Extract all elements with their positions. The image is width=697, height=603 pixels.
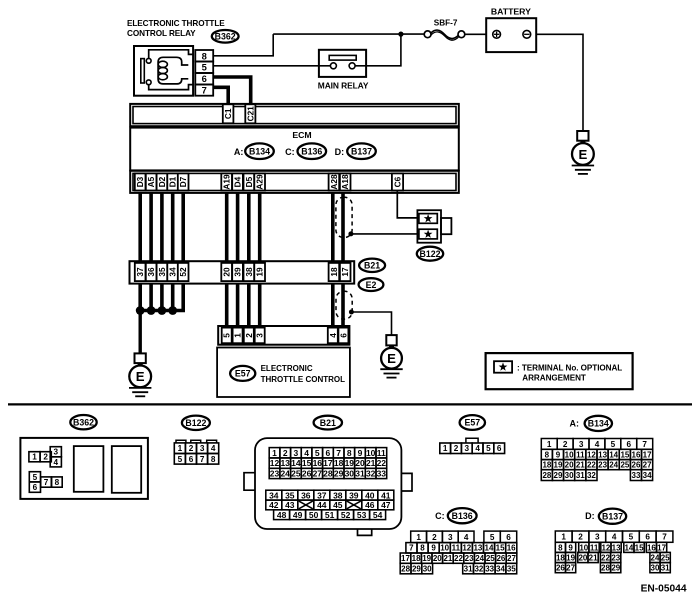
svg-text:THROTTLE CONTROL: THROTTLE CONTROL	[261, 375, 346, 384]
svg-text:E: E	[387, 351, 396, 366]
svg-text:29: 29	[334, 469, 344, 479]
E57 terminal 3	[255, 328, 265, 344]
svg-text:12: 12	[601, 543, 610, 552]
svg-text:4: 4	[211, 444, 216, 453]
svg-text:4: 4	[304, 448, 309, 458]
svg-text:31: 31	[464, 565, 473, 574]
svg-text:28: 28	[601, 564, 610, 573]
svg-text:15: 15	[302, 458, 312, 468]
svg-text:6: 6	[627, 440, 632, 449]
svg-text:2: 2	[454, 444, 459, 453]
connector B136 pinout	[400, 531, 517, 574]
svg-text:ELECTRONIC: ELECTRONIC	[261, 364, 313, 373]
wire strip col 2 to bus	[149, 284, 153, 311]
strip terminal 35	[157, 263, 168, 281]
svg-text:33: 33	[377, 469, 387, 479]
wire strip col 3 to bus	[160, 284, 164, 311]
svg-text:17: 17	[323, 458, 333, 468]
connector E57 pinout	[440, 438, 505, 453]
wire to E57 pin 6	[341, 284, 345, 328]
svg-text:7: 7	[662, 533, 667, 542]
svg-text:B362: B362	[215, 32, 236, 42]
svg-text:28: 28	[401, 565, 410, 574]
svg-text:C1: C1	[223, 108, 233, 119]
svg-text:7: 7	[44, 478, 49, 487]
svg-text:E57: E57	[235, 369, 251, 379]
svg-text:20: 20	[222, 267, 232, 277]
svg-text:16: 16	[507, 544, 516, 553]
ECM terminal A5	[146, 173, 157, 190]
svg-text:C:: C:	[435, 511, 445, 521]
wire to E57 pin 3	[258, 284, 262, 328]
strip terminal 39	[232, 263, 243, 281]
strip terminal 37	[135, 263, 146, 281]
svg-text:8: 8	[545, 450, 550, 459]
connector B122 pinout	[174, 440, 218, 464]
ECM terminal D3	[135, 173, 146, 190]
wire 52 elbow to bus	[173, 284, 184, 311]
svg-text:7: 7	[336, 448, 341, 458]
svg-text:12: 12	[270, 458, 280, 468]
svg-text:ARRANGEMENT: ARRANGEMENT	[522, 374, 586, 383]
wire junction to B122	[351, 233, 419, 235]
svg-text:9: 9	[431, 544, 436, 553]
svg-text:14: 14	[609, 450, 618, 459]
svg-text:15: 15	[620, 450, 629, 459]
svg-text:33: 33	[485, 565, 494, 574]
svg-text:17: 17	[401, 554, 410, 563]
battery	[486, 7, 536, 53]
svg-text:15: 15	[496, 544, 505, 553]
svg-text:D1: D1	[168, 176, 178, 187]
svg-text:18: 18	[329, 267, 339, 277]
svg-text:6: 6	[497, 444, 502, 453]
svg-text:19: 19	[554, 461, 563, 470]
svg-text:8: 8	[211, 455, 216, 464]
svg-text:10: 10	[440, 544, 449, 553]
ECM terminal D5	[244, 173, 255, 190]
svg-text:26: 26	[632, 461, 641, 470]
strip terminal 38	[244, 263, 255, 281]
svg-text:42: 42	[269, 500, 279, 510]
connector B122 (schematic)	[417, 210, 451, 243]
svg-text:20: 20	[355, 458, 365, 468]
svg-text:5: 5	[490, 533, 495, 542]
ECM bottom connector strip	[130, 171, 459, 193]
svg-text:5: 5	[33, 473, 38, 482]
ground bus	[140, 309, 174, 313]
svg-text:5: 5	[202, 62, 207, 73]
junction dot rail	[398, 31, 403, 36]
svg-text:31: 31	[576, 471, 585, 480]
svg-text:D5: D5	[244, 176, 254, 187]
junction dot bus	[136, 306, 145, 315]
connector label B122 (pinout)	[182, 416, 210, 430]
svg-text:50: 50	[309, 510, 319, 520]
svg-text:C:: C:	[285, 147, 295, 157]
svg-text:4: 4	[612, 533, 617, 542]
svg-text:22: 22	[454, 554, 463, 563]
ECM label C: B136	[285, 143, 326, 159]
svg-text:EN-05044: EN-05044	[641, 583, 687, 594]
connector label B362	[212, 30, 239, 43]
optional arrangement dashed outline upper	[336, 197, 352, 237]
svg-text:35: 35	[285, 490, 295, 500]
svg-text:6: 6	[338, 333, 348, 338]
svg-text:8: 8	[202, 50, 207, 61]
svg-text:B122: B122	[419, 249, 440, 259]
svg-text:30: 30	[345, 469, 355, 479]
wire battery rail	[273, 33, 427, 35]
svg-text:B137: B137	[351, 146, 372, 156]
svg-text:30: 30	[651, 564, 660, 573]
svg-text:22: 22	[601, 553, 610, 562]
svg-text:17: 17	[643, 450, 652, 459]
svg-text:6: 6	[189, 455, 194, 464]
svg-text:36: 36	[146, 267, 156, 277]
svg-text:30: 30	[423, 565, 432, 574]
svg-text:54: 54	[373, 510, 383, 520]
wire main relay to rail junction	[352, 34, 401, 66]
svg-text:27: 27	[566, 564, 575, 573]
svg-text:40: 40	[365, 490, 375, 500]
ECM top connector strip	[130, 104, 459, 126]
junction dot bus	[168, 306, 177, 315]
svg-text:2: 2	[563, 440, 568, 449]
svg-text:22: 22	[587, 461, 596, 470]
ECM terminal A28	[329, 173, 340, 190]
svg-text:9: 9	[568, 543, 573, 552]
svg-text:A:: A:	[570, 419, 580, 429]
svg-text:24: 24	[651, 553, 660, 562]
wire to E57 pin 4	[331, 284, 335, 328]
svg-text:13: 13	[280, 458, 290, 468]
svg-text:29: 29	[611, 564, 620, 573]
svg-text:1: 1	[416, 533, 421, 542]
svg-text:38: 38	[333, 490, 343, 500]
svg-text:43: 43	[285, 500, 295, 510]
svg-text:8: 8	[347, 448, 352, 458]
svg-text:2: 2	[189, 444, 194, 453]
ECM terminal D4	[232, 173, 243, 190]
svg-text:30: 30	[565, 471, 574, 480]
svg-text:23: 23	[611, 553, 620, 562]
strip terminal 18	[329, 263, 340, 281]
connector label B362 (pinout)	[70, 415, 96, 429]
relay pin box 7	[195, 85, 213, 96]
svg-text:BATTERY: BATTERY	[491, 7, 531, 17]
svg-text:37: 37	[135, 267, 145, 277]
wire D5 down	[247, 193, 251, 261]
svg-text:SBF-7: SBF-7	[434, 19, 458, 28]
terminal C1	[223, 104, 234, 123]
ECM label A: B134	[234, 143, 274, 159]
svg-text:B21: B21	[320, 418, 336, 428]
junction dot to ground E	[349, 310, 354, 315]
svg-text:17: 17	[340, 267, 350, 277]
svg-text:D2: D2	[157, 176, 167, 187]
connector B134 pinout	[541, 439, 652, 481]
svg-text:2: 2	[283, 448, 288, 458]
svg-text:47: 47	[381, 500, 391, 510]
wire to E57 pin 1	[236, 284, 240, 328]
connector B137 pinout	[555, 531, 673, 573]
svg-text:3: 3	[595, 533, 600, 542]
wire to E57 pin 2	[247, 284, 251, 328]
svg-text:D4: D4	[233, 176, 243, 187]
wire A28 down	[331, 193, 335, 261]
svg-text:14: 14	[485, 544, 494, 553]
ECM terminal C6	[392, 173, 403, 190]
svg-text:E57: E57	[464, 418, 480, 428]
wire junction to ground	[351, 312, 391, 335]
svg-text:8: 8	[55, 478, 60, 487]
svg-text:1: 1	[178, 444, 183, 453]
wire pin6 to C21	[213, 77, 251, 106]
ECM terminal A18	[340, 173, 351, 190]
svg-text:3: 3	[465, 444, 470, 453]
wire A5 down	[149, 193, 153, 261]
svg-text:A29: A29	[255, 174, 265, 190]
svg-text:11: 11	[576, 450, 585, 459]
svg-text:1: 1	[443, 444, 448, 453]
svg-text:34: 34	[168, 267, 178, 277]
svg-text:25: 25	[661, 553, 670, 562]
E57 terminal 1	[233, 328, 243, 344]
wire D1 down	[171, 193, 175, 261]
svg-text:CONTROL RELAY: CONTROL RELAY	[127, 29, 196, 38]
svg-text:5: 5	[629, 533, 634, 542]
svg-text:26: 26	[496, 554, 505, 563]
svg-text:52: 52	[341, 510, 351, 520]
svg-text:C6: C6	[393, 176, 403, 187]
svg-text:4: 4	[328, 333, 338, 338]
svg-text:B134: B134	[588, 419, 609, 429]
wire bus to ground	[138, 311, 141, 354]
svg-text:7: 7	[642, 440, 647, 449]
svg-text:18: 18	[556, 553, 565, 562]
svg-text:12: 12	[587, 450, 596, 459]
ECM terminal D7	[178, 173, 189, 190]
svg-text:3: 3	[579, 440, 584, 449]
relay pin box 6	[195, 73, 213, 85]
svg-text:E: E	[136, 369, 145, 384]
svg-text:39: 39	[233, 267, 243, 277]
svg-text:20: 20	[433, 554, 442, 563]
svg-text:11: 11	[377, 448, 386, 458]
svg-text:7: 7	[202, 85, 207, 96]
svg-text:3: 3	[255, 333, 265, 338]
connector label C: B136 (pinout)	[435, 508, 477, 523]
svg-text:D:: D:	[585, 511, 595, 521]
wire D2 down	[160, 193, 164, 261]
svg-text:4: 4	[475, 444, 480, 453]
svg-text:ELECTRONIC THROTTLE: ELECTRONIC THROTTLE	[127, 19, 225, 28]
connector B21 pinout	[244, 438, 412, 535]
svg-text:6: 6	[645, 533, 650, 542]
svg-text:3: 3	[54, 448, 59, 457]
svg-text:31: 31	[661, 564, 670, 573]
svg-text:E2: E2	[366, 280, 377, 290]
wire D4 down	[236, 193, 240, 261]
svg-text:5: 5	[486, 444, 491, 453]
wire strip col 1 to bus	[138, 284, 142, 311]
svg-text:7: 7	[409, 544, 414, 553]
svg-text:1: 1	[32, 453, 37, 462]
svg-text:4: 4	[464, 533, 469, 542]
svg-text:A28: A28	[329, 174, 339, 190]
svg-text:21: 21	[366, 458, 376, 468]
svg-text:39: 39	[349, 490, 359, 500]
svg-text:35: 35	[157, 267, 167, 277]
svg-text:D7: D7	[178, 176, 188, 187]
svg-text:34: 34	[496, 565, 505, 574]
ground E battery	[572, 131, 594, 174]
svg-text:15: 15	[635, 543, 644, 552]
svg-text:24: 24	[280, 469, 290, 479]
svg-text:6: 6	[202, 73, 207, 84]
svg-text:2: 2	[244, 333, 254, 338]
wire A29 down	[258, 193, 262, 261]
ECM terminal A19	[221, 173, 232, 190]
svg-text:5: 5	[178, 455, 183, 464]
svg-text:14: 14	[624, 543, 633, 552]
svg-text:46: 46	[365, 500, 375, 510]
connector label A: B134 (pinout)	[570, 416, 613, 431]
svg-text:1: 1	[233, 333, 243, 338]
junction dot to B122	[348, 231, 353, 236]
ground E right	[380, 335, 402, 378]
ECM terminal D2	[157, 173, 168, 190]
relay B362 title	[127, 19, 225, 38]
svg-text:8: 8	[558, 543, 563, 552]
svg-text:19: 19	[422, 554, 431, 563]
svg-text:33: 33	[632, 471, 641, 480]
svg-text:6: 6	[506, 533, 511, 542]
svg-text:10: 10	[366, 448, 376, 458]
junction dot bus	[158, 306, 167, 315]
svg-text:6: 6	[326, 448, 331, 458]
svg-text:B122: B122	[185, 418, 206, 428]
svg-text:3: 3	[200, 444, 205, 453]
svg-text:21: 21	[589, 553, 598, 562]
E57 terminal 6	[338, 328, 348, 344]
strip terminal 20	[221, 263, 232, 281]
svg-text:32: 32	[474, 565, 483, 574]
svg-text:20: 20	[565, 461, 574, 470]
svg-text:21: 21	[443, 554, 452, 563]
svg-text:37: 37	[317, 490, 327, 500]
svg-text:48: 48	[277, 510, 287, 520]
svg-text:9: 9	[358, 448, 363, 458]
svg-text:49: 49	[293, 510, 303, 520]
svg-text:16: 16	[313, 458, 323, 468]
terminal C21	[245, 104, 255, 123]
wire pin7 to C1	[213, 87, 228, 105]
wire battery to ground	[536, 34, 583, 131]
svg-text:11: 11	[452, 544, 461, 553]
svg-text:5: 5	[315, 448, 320, 458]
svg-text:1: 1	[272, 448, 277, 458]
svg-text:23: 23	[465, 554, 474, 563]
svg-text:3: 3	[294, 448, 299, 458]
E57 terminal 5	[222, 328, 232, 344]
svg-text:16: 16	[647, 543, 656, 552]
svg-text:32: 32	[587, 471, 596, 480]
svg-text:13: 13	[612, 543, 621, 552]
svg-text:16: 16	[632, 450, 641, 459]
svg-text:2: 2	[432, 533, 437, 542]
svg-text:26: 26	[302, 469, 312, 479]
svg-text:C21: C21	[245, 106, 255, 122]
svg-text:12: 12	[462, 544, 471, 553]
svg-text:A:: A:	[234, 147, 244, 157]
svg-text:32: 32	[366, 469, 376, 479]
E57 terminal 4	[328, 328, 338, 344]
svg-text:19: 19	[566, 553, 575, 562]
svg-text:9: 9	[556, 450, 561, 459]
svg-text:23: 23	[270, 469, 280, 479]
connector label B21 (schematic)	[359, 259, 385, 272]
svg-text:: TERMINAL No. OPTIONAL: : TERMINAL No. OPTIONAL	[517, 363, 622, 372]
svg-text:7: 7	[200, 455, 205, 464]
svg-text:B137: B137	[602, 511, 623, 521]
middle connector strip B21/E2	[130, 261, 355, 283]
svg-text:4: 4	[54, 458, 59, 467]
svg-text:53: 53	[357, 510, 367, 520]
svg-text:27: 27	[643, 461, 652, 470]
wire strip col 4 to bus	[171, 284, 175, 311]
svg-text:25: 25	[620, 461, 629, 470]
wire pin8 to battery rail	[213, 34, 273, 56]
wire pin5 to main relay	[213, 65, 333, 67]
svg-text:1: 1	[547, 440, 552, 449]
svg-text:4: 4	[595, 440, 600, 449]
svg-text:A5: A5	[146, 176, 156, 187]
electronic throttle control relay body	[134, 46, 193, 96]
svg-text:2: 2	[578, 533, 583, 542]
wire A19 down	[225, 193, 229, 261]
svg-text:18: 18	[334, 458, 344, 468]
svg-text:8: 8	[420, 544, 425, 553]
svg-text:D:: D:	[335, 147, 345, 157]
wire C6 to B122	[397, 192, 419, 218]
svg-text:A18: A18	[340, 174, 350, 190]
svg-text:B134: B134	[249, 146, 270, 156]
svg-text:35: 35	[507, 565, 516, 574]
E57 connector strip	[218, 326, 349, 345]
ground E left	[129, 353, 151, 396]
ECM box	[130, 128, 459, 171]
wire D3 down	[138, 193, 142, 261]
svg-text:36: 36	[301, 490, 311, 500]
relay pin box 8	[195, 50, 213, 62]
svg-text:MAIN RELAY: MAIN RELAY	[318, 80, 369, 90]
svg-text:B21: B21	[364, 261, 380, 271]
junction dot bus	[147, 306, 156, 315]
svg-text:27: 27	[507, 554, 516, 563]
svg-text:44: 44	[317, 500, 327, 510]
main relay	[318, 50, 369, 91]
strip terminal 17	[340, 263, 351, 281]
svg-text:31: 31	[355, 469, 365, 479]
svg-text:5: 5	[611, 440, 616, 449]
relay pin box 5	[195, 62, 213, 74]
svg-text:45: 45	[333, 500, 343, 510]
strip terminal 36	[146, 263, 157, 281]
svg-text:23: 23	[598, 461, 607, 470]
svg-text:A19: A19	[222, 174, 232, 190]
